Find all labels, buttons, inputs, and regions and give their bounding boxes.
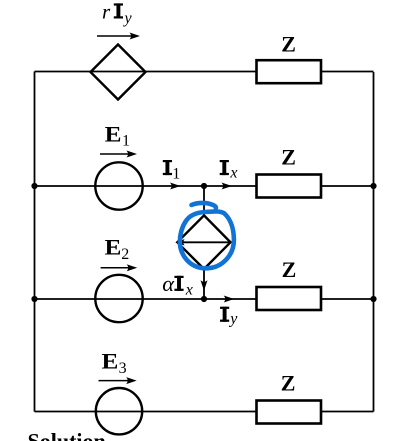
svg-text:α: α — [162, 271, 175, 296]
svg-text:3: 3 — [119, 360, 127, 377]
svg-text:1: 1 — [172, 165, 180, 182]
svg-text:Z: Z — [281, 144, 296, 169]
svg-text:E: E — [102, 350, 119, 374]
svg-text:r: r — [102, 0, 111, 24]
svg-text:x: x — [229, 165, 237, 182]
svg-text:Solution: Solution — [28, 429, 106, 441]
svg-text:y: y — [228, 311, 238, 328]
svg-text:y: y — [123, 10, 133, 27]
svg-text:Z: Z — [281, 371, 296, 396]
svg-text:E: E — [105, 123, 122, 147]
svg-text:1: 1 — [122, 132, 130, 149]
svg-text:Z: Z — [282, 257, 297, 282]
svg-text:E: E — [105, 236, 122, 260]
svg-text:Z: Z — [281, 31, 296, 56]
svg-text:x: x — [185, 281, 193, 298]
svg-text:2: 2 — [121, 246, 129, 263]
